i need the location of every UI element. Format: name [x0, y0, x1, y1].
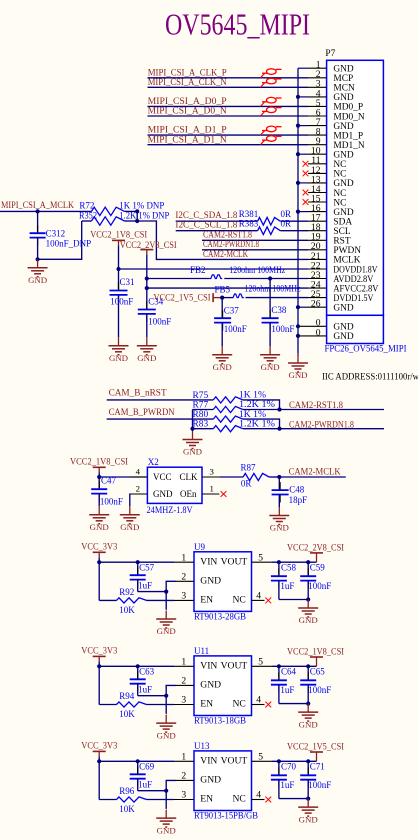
wire net MIPI_CSI_A_CLK_P [148, 77, 309, 79]
ground symbol below C38 [260, 346, 280, 372]
svg-text:RT9013-18GB: RT9013-18GB [194, 716, 246, 726]
resistor pullup 10K at U9 EN [99, 598, 174, 603]
P7 pin 7 GND [308, 117, 354, 132]
svg-text:VCC2_1V8_CSI: VCC2_1V8_CSI [287, 647, 344, 657]
svg-text:VOUT: VOUT [221, 756, 248, 767]
P7 pin 19 RST [308, 232, 351, 247]
svg-text:VIN: VIN [200, 661, 217, 672]
wire VCC_3V3 to U13 VIN [97, 759, 174, 799]
wire CAM_B_PWRDN [107, 418, 214, 420]
capacitor C312 100nF_DNP [30, 211, 92, 259]
ferrite bead FB5 120ohm 100MHz [215, 283, 301, 297]
no-connect on X2 pin 1 OEn [221, 491, 227, 497]
svg-text:120ohm 100MHz: 120ohm 100MHz [229, 265, 285, 275]
P7 pin 15 NC [308, 193, 346, 208]
svg-text:MCN: MCN [333, 84, 355, 94]
net label MIPI_CSI_A_D1_P [148, 125, 227, 135]
wire R80 to CAM2-PWRDN1.8 [243, 419, 384, 431]
svg-text:VCC_3V3: VCC_3V3 [81, 646, 117, 656]
power port VCC_3V3 at U9 [81, 542, 117, 563]
svg-text:AFVCC2.8V: AFVCC2.8V [333, 284, 378, 294]
svg-text:120ohm 100MHz: 120ohm 100MHz [245, 283, 301, 293]
svg-text:I2C_C_SDA_1.8: I2C_C_SDA_1.8 [175, 210, 237, 220]
designator C65 100nF [308, 667, 331, 695]
svg-text:VCC2_1V8_CSI: VCC2_1V8_CSI [90, 229, 147, 239]
P7 pin 5 MD0_P [308, 98, 363, 113]
P7 pin 23 AVDD2.8V [308, 270, 374, 285]
wire R75 to CAM2-RST1.8 [243, 400, 384, 412]
svg-text:GND: GND [157, 825, 176, 835]
power port VCC2_1V8_CSI at U11 output [287, 647, 344, 667]
svg-text:VCC_3V3: VCC_3V3 [81, 542, 117, 552]
GND bus wire at connector [298, 68, 308, 353]
designator R92 10K [119, 587, 135, 615]
svg-text:MD0_N: MD0_N [333, 112, 364, 122]
designator C69 [138, 762, 155, 790]
svg-text:DVDD1.5V: DVDD1.5V [333, 294, 373, 304]
P7 pin 3 MCN [308, 79, 355, 94]
svg-text:4: 4 [256, 591, 261, 602]
svg-text:EN: EN [200, 595, 213, 606]
svg-text:0: 0 [316, 327, 321, 338]
svg-text:100nF: 100nF [271, 324, 294, 334]
svg-text:GND: GND [109, 353, 128, 363]
P7 pin 26 GND [308, 299, 354, 314]
ground symbol below C48 [269, 507, 289, 533]
svg-text:C312: C312 [46, 228, 66, 238]
ground symbol below C31 [109, 337, 129, 363]
svg-text:C58: C58 [281, 563, 297, 573]
svg-text:24MHZ-1.8V: 24MHZ-1.8V [147, 505, 193, 515]
no-connect marks on NC pins 11 12 14 15 [303, 161, 309, 205]
svg-text:VCC: VCC [153, 472, 172, 482]
svg-text:C57: C57 [139, 563, 155, 573]
svg-text:AVDD2.8V: AVDD2.8V [333, 275, 373, 285]
net label I2C_C_SDA_1.8 [175, 210, 237, 220]
resistor R83 1.2K 1% [193, 419, 276, 431]
svg-text:CAM_B_PWRDN: CAM_B_PWRDN [109, 407, 175, 418]
wire net MIPI_CSI_A_D0_N [148, 115, 309, 117]
svg-text:4: 4 [136, 466, 141, 476]
designator C58 1uF [280, 563, 296, 591]
wire AFVCC2.8V rail [145, 286, 308, 290]
differential pair directive on MIPI_CSI_A_D0_P [261, 97, 282, 106]
svg-text:GND: GND [213, 362, 232, 372]
svg-text:CAM2-RST1.8: CAM2-RST1.8 [203, 230, 252, 240]
ground symbol below U9 [156, 611, 176, 637]
svg-text:3: 3 [210, 466, 215, 476]
resistor R381 0R [239, 209, 291, 225]
svg-text:NC: NC [233, 595, 246, 606]
svg-text:GND: GND [333, 332, 354, 342]
svg-text:100nF: 100nF [224, 324, 247, 334]
svg-text:0R: 0R [241, 479, 252, 489]
svg-text:1: 1 [181, 552, 186, 563]
power port VCC2_1V8_CSI at X2 [70, 457, 128, 477]
svg-text:R96: R96 [119, 786, 135, 796]
svg-text:P7: P7 [325, 49, 335, 59]
ground symbol X2 pin 2 [120, 506, 140, 532]
power port VCC2_1V5_CSI [154, 292, 223, 302]
designator C64 1uF [280, 667, 296, 695]
svg-text:VIN: VIN [200, 556, 217, 567]
ground symbol at U9 output [298, 600, 318, 626]
svg-text:MIPI_CSI_A_CLK_P: MIPI_CSI_A_CLK_P [148, 67, 227, 77]
output capacitor 100nF at U9 [300, 562, 316, 599]
svg-text:4: 4 [256, 790, 261, 801]
svg-text:MIPI_CSI_A_MCLK: MIPI_CSI_A_MCLK [1, 200, 74, 210]
svg-text:18pF: 18pF [289, 495, 308, 505]
svg-text:R383: R383 [239, 218, 259, 228]
wire net I2C_C_SCL_1.8 [176, 230, 308, 232]
P7 pin 0 GND (1) [298, 318, 354, 333]
net label MIPI_CSI_A_MCLK [1, 200, 74, 210]
svg-text:10K: 10K [119, 804, 135, 814]
wire output caps to ground at U13 [279, 797, 310, 801]
designator R94 10K [119, 691, 135, 719]
svg-text:X2: X2 [148, 457, 159, 467]
connector P7 part label FPC26_OV5645_MIPI [325, 344, 407, 354]
net label CAM2-RST1.8 at connector [202, 230, 308, 241]
svg-text:1uF: 1uF [138, 580, 152, 590]
P7 pin 10 GND [308, 146, 354, 161]
output capacitor 1uF at U9 [271, 562, 287, 599]
svg-text:GND: GND [183, 447, 202, 457]
svg-text:1uF: 1uF [280, 685, 294, 695]
P7 pin 12 NC [308, 165, 346, 180]
svg-text:3: 3 [181, 790, 186, 801]
svg-text:5: 5 [258, 552, 263, 563]
wire net MIPI_CSI_A_D0_P [148, 105, 309, 107]
output capacitor 1uF at U11 [271, 666, 287, 703]
junction node CAM2-MCLK [277, 475, 281, 479]
wire MIPI_CSI_A_MCLK [0, 210, 92, 212]
svg-text:SCL: SCL [333, 227, 350, 237]
resistor R80 1K 1% [193, 410, 267, 422]
svg-text:CAM2-RST1.8: CAM2-RST1.8 [289, 401, 343, 411]
svg-text:MD1_P: MD1_P [333, 131, 363, 141]
svg-text:C38: C38 [271, 305, 287, 315]
wire U9 VOUT rail [271, 560, 316, 564]
wire U11 VOUT rail [271, 664, 316, 668]
resistor R72 1K 1% DNP [79, 200, 164, 215]
svg-text:NC: NC [333, 160, 346, 170]
ground symbol below U13 [156, 810, 176, 836]
net label MIPI_CSI_A_D1_N [148, 134, 228, 144]
oscillator X2 24MHZ-1.8V [130, 457, 219, 515]
designator C59 100nF [308, 563, 331, 591]
P7 pin 4 GND [308, 88, 354, 103]
wire VCC_3V3 to U9 VIN [97, 560, 174, 600]
P7 pin 21 MCLK [308, 251, 361, 266]
svg-text:100nF: 100nF [308, 581, 331, 591]
svg-text:C64: C64 [281, 667, 297, 677]
ground symbol at connector bus [288, 354, 308, 381]
net label CAM2-RST1.8 [289, 401, 343, 411]
svg-text:GND: GND [333, 93, 354, 103]
svg-text:GND: GND [299, 615, 318, 625]
svg-text:1uF: 1uF [280, 780, 294, 790]
svg-text:R381: R381 [239, 209, 259, 219]
svg-text:0R: 0R [281, 218, 292, 228]
wire AVDD2.8V rail with junctions [145, 276, 308, 288]
resistor pullup 10K at U13 EN [99, 797, 174, 802]
svg-text:R80: R80 [193, 410, 209, 420]
P7 pin 1 GND [308, 60, 354, 75]
svg-text:VCC2_2V8_CSI: VCC2_2V8_CSI [287, 542, 344, 552]
P7 pin 16 GND [308, 203, 354, 218]
ground symbol at U13 output [298, 799, 318, 825]
svg-text:R72: R72 [79, 200, 94, 210]
wire DVDD1.5V rail [220, 296, 308, 300]
svg-text:EN: EN [200, 699, 213, 710]
differential pair directive on MIPI_CSI_A_CLK_N [261, 78, 282, 87]
P7 pin 25 DVDD1.5V [308, 289, 374, 304]
wire MCLK node to CAM2-MCLK row [135, 209, 308, 259]
svg-text:RST: RST [333, 237, 350, 247]
P7 pin 20 PWDN [308, 241, 361, 256]
svg-text:R75: R75 [193, 391, 209, 401]
svg-text:26: 26 [311, 299, 321, 310]
P7 pin 22 DOVDD1.8V [308, 260, 378, 275]
svg-text:VOUT: VOUT [221, 661, 248, 672]
resistor R77 1.2K 1% [193, 400, 276, 412]
svg-text:C37: C37 [224, 306, 240, 316]
ground symbol below C47 [89, 506, 109, 532]
svg-text:MCP: MCP [333, 74, 353, 84]
svg-text:VIN: VIN [200, 756, 217, 767]
power port VCC2_2V8_CSI [120, 240, 177, 278]
designator R96 10K [119, 786, 135, 814]
svg-text:CAM_B_nRST: CAM_B_nRST [109, 388, 167, 399]
junction dots on GND bus [296, 95, 300, 338]
power port VCC2_1V5_CSI at U13 output [287, 742, 344, 762]
svg-text:MIPI_CSI_A_D0_P: MIPI_CSI_A_D0_P [148, 96, 227, 106]
wire X2 GND pin 2 [129, 494, 131, 506]
ground symbol at U11 output [298, 704, 318, 730]
svg-text:C69: C69 [139, 762, 155, 772]
capacitor C47 100nF [91, 476, 123, 507]
wire DOVDD1.8V rail [116, 267, 308, 271]
svg-text:C71: C71 [310, 762, 325, 772]
svg-text:100nF: 100nF [308, 780, 331, 790]
net label CAM2-PWRDN1.8 at connector [202, 239, 308, 250]
svg-text:GND: GND [120, 522, 139, 532]
wire net CAM2-MCLK out [279, 476, 346, 478]
power port VCC2_1V8_CSI [90, 229, 147, 269]
svg-text:U13: U13 [194, 741, 210, 751]
svg-text:OEn: OEn [180, 489, 197, 499]
designator C63 [138, 667, 155, 695]
svg-text:IIC ADDRESS:0111100r/w: IIC ADDRESS:0111100r/w [322, 372, 418, 382]
wire U13 VOUT rail [271, 759, 316, 763]
svg-text:2: 2 [181, 771, 186, 782]
svg-text:C70: C70 [281, 762, 297, 772]
svg-text:3: 3 [181, 695, 186, 706]
net label I2C_C_SCL_1.8 [175, 220, 238, 230]
ground symbol below C312 [28, 259, 48, 285]
svg-text:100nF_DNP: 100nF_DNP [46, 238, 92, 248]
svg-text:2: 2 [136, 483, 140, 493]
wire U9 GND pin 2 dogleg [164, 581, 176, 610]
svg-text:MD1_N: MD1_N [333, 141, 364, 151]
svg-text:FPC26_OV5645_MIPI: FPC26_OV5645_MIPI [325, 344, 407, 354]
U9 regulator body RT9013-28GB [174, 542, 271, 622]
ground symbol below C37 [212, 346, 232, 372]
wire output caps to ground at U9 [279, 597, 310, 601]
svg-text:GND: GND [200, 576, 221, 587]
wire U11 GND pin 2 dogleg [164, 685, 176, 714]
P7 pin 11 NC [308, 155, 346, 170]
svg-text:GND: GND [200, 775, 221, 786]
svg-text:CLK: CLK [180, 472, 199, 482]
power port VCC2_2V8_CSI at U9 output [287, 542, 344, 562]
wire pulldown bus to ground [190, 410, 194, 432]
resistor R87 0R [241, 462, 280, 488]
wire CAM_B_nRST [107, 399, 214, 401]
svg-text:C63: C63 [139, 667, 155, 677]
title OV5645_MIPI [165, 6, 310, 41]
svg-text:1uF: 1uF [280, 581, 294, 591]
P7 pin 9 MD1_N [308, 136, 365, 151]
svg-text:NC: NC [333, 189, 346, 199]
svg-text:NC: NC [233, 699, 246, 710]
wire net MIPI_CSI_A_D1_P [148, 134, 309, 136]
net label MIPI_CSI_A_CLK_N [148, 77, 227, 87]
svg-text:SDA: SDA [333, 218, 352, 228]
wire net MIPI_CSI_A_CLK_N [148, 86, 309, 88]
svg-text:VCC2_1V5_CSI: VCC2_1V5_CSI [287, 742, 344, 752]
svg-text:GND: GND [333, 122, 354, 132]
svg-text:GND: GND [333, 304, 354, 314]
svg-text:GND: GND [200, 680, 221, 691]
capacitor C38 100nF [262, 276, 295, 346]
capacitor C48 18pF [272, 477, 308, 507]
svg-text:GND: GND [261, 362, 280, 372]
capacitor C37 100nF [214, 298, 247, 347]
svg-text:I2C_C_SCL_1.8: I2C_C_SCL_1.8 [175, 220, 238, 230]
svg-text:GND: GND [333, 323, 354, 333]
svg-text:EN: EN [200, 794, 213, 805]
svg-text:1uF: 1uF [138, 779, 152, 789]
P7 pin 17 SDA [308, 213, 352, 228]
ground symbol below U11 [156, 715, 176, 741]
junction node C312 top [36, 209, 40, 213]
differential pair directive on MIPI_CSI_A_D1_P [261, 126, 282, 135]
svg-text:1.2K 1% DNP: 1.2K 1% DNP [119, 210, 169, 220]
svg-text:VCC2_2V8_CSI: VCC2_2V8_CSI [120, 240, 177, 250]
differential pair directive on MIPI_CSI_A_D1_N [261, 136, 282, 145]
svg-text:MIPI_CSI_A_D1_P: MIPI_CSI_A_D1_P [148, 125, 227, 135]
svg-text:C31: C31 [120, 277, 135, 287]
resistor R352 1.2K 1% DNP [79, 210, 169, 225]
capacitor input 1uF at U13 [130, 759, 167, 791]
svg-text:RT9013-28GB: RT9013-28GB [194, 612, 246, 622]
svg-text:GND: GND [157, 626, 176, 636]
ground symbol CAM_B dividers [183, 431, 203, 457]
note IIC ADDRESS [322, 372, 418, 382]
svg-text:3: 3 [181, 591, 186, 602]
U11 regulator body RT9013-18GB [174, 646, 271, 726]
resistor R383 0R [239, 218, 291, 234]
svg-text:100nF: 100nF [100, 497, 123, 507]
svg-text:GND: GND [333, 65, 354, 75]
svg-text:GND: GND [333, 151, 354, 161]
svg-text:R352: R352 [79, 210, 97, 220]
differential pair directive on MIPI_CSI_A_CLK_P [261, 69, 282, 78]
wire U13 GND pin 2 dogleg [164, 780, 176, 809]
P7 pin 8 MD1_P [308, 127, 363, 142]
svg-text:GND: GND [157, 730, 176, 740]
svg-text:100nF: 100nF [110, 297, 133, 307]
svg-text:1uF: 1uF [138, 684, 152, 694]
svg-text:NC: NC [333, 198, 346, 208]
svg-text:100nF: 100nF [308, 685, 331, 695]
net label CAM2-MCLK at connector [203, 249, 248, 259]
designator C57 [138, 563, 155, 591]
svg-text:R87: R87 [241, 462, 257, 472]
no-connect on U11 pin 4 [265, 702, 271, 708]
no-connect on U13 pin 4 [265, 797, 271, 803]
svg-text:CAM2-PWRDN1.8: CAM2-PWRDN1.8 [203, 239, 259, 249]
svg-text:FB5: FB5 [215, 284, 231, 294]
svg-text:MD0_P: MD0_P [333, 103, 363, 113]
svg-text:GND: GND [153, 489, 173, 499]
svg-text:GND: GND [299, 814, 318, 824]
wire output caps to ground at U11 [279, 702, 310, 706]
svg-text:U11: U11 [194, 646, 209, 656]
resistor R75 1K 1% [193, 391, 267, 403]
net label MIPI_CSI_A_D0_N [148, 106, 228, 116]
wire X2 CLK to R87 [219, 476, 243, 478]
resistor pullup 10K at U11 EN [99, 702, 174, 707]
svg-text:GND: GND [270, 523, 289, 533]
svg-text:4: 4 [256, 695, 261, 706]
U13 regulator body RT9013-15PB/GB [174, 741, 271, 821]
svg-text:10K: 10K [119, 605, 135, 615]
capacitor C31 100nF [110, 269, 135, 337]
svg-text:R77: R77 [193, 401, 209, 411]
no-connect on U9 pin 4 [265, 598, 271, 604]
svg-text:NC: NC [333, 170, 346, 180]
svg-text:1: 1 [210, 483, 214, 493]
svg-text:C47: C47 [101, 476, 117, 486]
differential pair directive on MIPI_CSI_A_D0_N [261, 107, 282, 116]
designator C71 100nF [308, 762, 331, 790]
svg-text:MIPI_CSI_A_CLK_N: MIPI_CSI_A_CLK_N [148, 77, 227, 87]
P7 pin 13 GND [308, 174, 354, 189]
svg-text:GND: GND [137, 353, 156, 363]
wire net MIPI_CSI_A_D1_N [148, 144, 309, 146]
P7 pin 2 MCP [308, 69, 353, 84]
P7 pin 0 GND (2) [298, 327, 354, 342]
svg-text:VCC_3V3: VCC_3V3 [81, 741, 117, 751]
svg-text:2: 2 [181, 676, 186, 687]
svg-text:R83: R83 [193, 420, 209, 430]
ferrite bead FB2 120ohm 100MHz [190, 265, 285, 279]
net label CAM2-PWRDN1.8 [289, 420, 354, 430]
svg-text:CAM2-MCLK: CAM2-MCLK [289, 466, 341, 476]
P7 pin 18 SCL [308, 222, 351, 237]
svg-text:DOVDD1.8V: DOVDD1.8V [333, 265, 377, 275]
svg-text:MIPI_CSI_A_D0_N: MIPI_CSI_A_D0_N [148, 106, 228, 116]
svg-text:RT9013-15PB/GB: RT9013-15PB/GB [194, 811, 258, 821]
svg-text:OV5645_MIPI: OV5645_MIPI [165, 6, 310, 41]
capacitor input 1uF at U9 [130, 560, 167, 591]
svg-text:10K: 10K [119, 709, 135, 719]
svg-text:C59: C59 [310, 563, 326, 573]
wire R352 bottom to ground node [36, 221, 82, 261]
